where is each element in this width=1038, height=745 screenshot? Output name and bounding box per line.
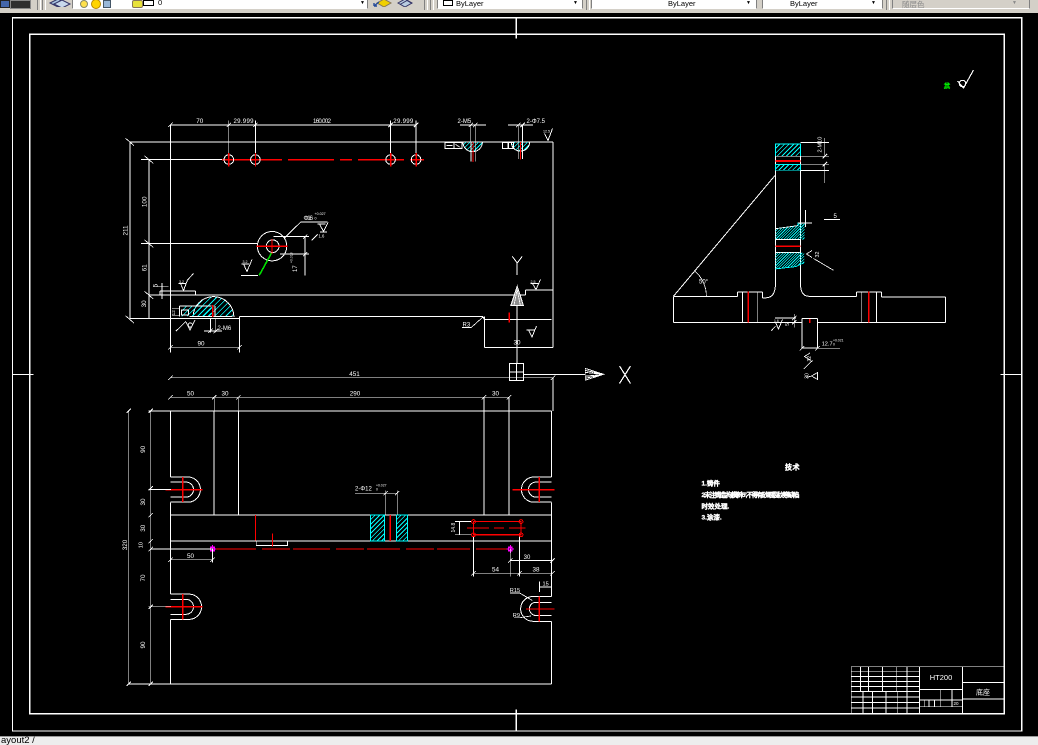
svg-text:29.999: 29.999 bbox=[234, 118, 255, 125]
svg-text:70: 70 bbox=[196, 118, 204, 125]
roughness mark right step bbox=[531, 280, 541, 290]
hole red cross ticks bbox=[229, 153, 416, 167]
svg-text:15: 15 bbox=[543, 581, 549, 587]
plot icon bbox=[132, 0, 143, 8]
svg-text:0: 0 bbox=[315, 216, 317, 220]
50deg angle arc bbox=[695, 271, 707, 296]
layer combobox bbox=[72, 0, 368, 9]
svg-text:其余: 其余 bbox=[944, 81, 951, 90]
phi16 hole inner circle bbox=[266, 240, 279, 253]
svg-text:320: 320 bbox=[122, 539, 129, 550]
hole row centerline red bbox=[149, 159, 222, 161]
svg-text:技术: 技术 bbox=[785, 463, 800, 472]
UCS Y label bbox=[512, 256, 522, 275]
svg-text:30: 30 bbox=[524, 555, 531, 561]
svg-text:HT200: HT200 bbox=[930, 673, 953, 682]
svg-text:12.5: 12.5 bbox=[543, 130, 550, 134]
frame centering tick right bbox=[1000, 373, 1021, 375]
bottom view outline bbox=[129, 411, 552, 684]
title block bbox=[851, 667, 1004, 714]
svg-text:R15: R15 bbox=[510, 588, 520, 594]
roughness mark below right step bbox=[527, 326, 537, 337]
pocket1 extension + text 2-M5 bbox=[460, 123, 486, 142]
svg-text:29.999: 29.999 bbox=[393, 118, 414, 125]
svg-text:17: 17 bbox=[293, 265, 299, 272]
base right bolt hole bbox=[862, 292, 877, 323]
svg-text:30: 30 bbox=[492, 391, 500, 398]
linetype combobox bbox=[591, 0, 757, 9]
svg-text:10: 10 bbox=[139, 542, 145, 548]
wall fillets bbox=[766, 285, 776, 298]
svg-text:290: 290 bbox=[350, 391, 361, 398]
surface callout 32 below key bbox=[804, 353, 813, 369]
451 dim bbox=[168, 376, 555, 411]
ext line to point bbox=[151, 548, 212, 550]
54 / 38 dims bbox=[471, 536, 554, 577]
base left bolt hole bbox=[743, 292, 758, 322]
roughness mark sheet top right of view bbox=[545, 129, 553, 141]
svg-text:50: 50 bbox=[187, 391, 195, 398]
svg-text:时效处理.: 时效处理. bbox=[702, 502, 730, 511]
svg-text:90: 90 bbox=[197, 340, 205, 347]
svg-text:3.2: 3.2 bbox=[179, 280, 184, 284]
50 dim below point bbox=[168, 549, 214, 562]
svg-text:32: 32 bbox=[815, 252, 821, 258]
svg-text:Φ16: Φ16 bbox=[304, 215, 314, 222]
svg-text:R9: R9 bbox=[513, 613, 520, 619]
svg-text:+0.018: +0.018 bbox=[290, 252, 294, 263]
R3 leader bbox=[462, 317, 483, 327]
application toolbar bbox=[0, 0, 1038, 14]
svg-text:30: 30 bbox=[221, 391, 229, 398]
svg-text:3.2: 3.2 bbox=[243, 260, 248, 264]
roughness check top right bbox=[958, 70, 974, 88]
base outline bbox=[673, 292, 945, 323]
middle red line bbox=[775, 245, 800, 247]
pocket2 datum boxes bbox=[503, 143, 514, 149]
svg-text:32: 32 bbox=[807, 356, 813, 362]
boss inner box + hatch bbox=[0, 0, 1, 1]
frame centering tick top bbox=[515, 18, 517, 39]
svg-text:100: 100 bbox=[142, 196, 149, 207]
svg-text:61: 61 bbox=[142, 264, 149, 272]
UCS vertical axis line bbox=[516, 305, 518, 363]
32 thread callout bbox=[807, 251, 834, 271]
svg-text:30: 30 bbox=[141, 300, 148, 308]
svg-text:2-M10: 2-M10 bbox=[818, 137, 824, 153]
key side dim 5 bbox=[775, 314, 796, 327]
UCS X label bbox=[620, 366, 631, 384]
key width dim 12.7 bbox=[800, 346, 840, 350]
2-M6 dim bbox=[204, 319, 222, 333]
phi16 label leader bbox=[284, 222, 327, 238]
layout tab bar bbox=[0, 736, 1038, 745]
red slot rectangle bbox=[474, 522, 522, 535]
svg-text:2-Φ7.5: 2-Φ7.5 bbox=[527, 119, 546, 125]
2-phi12 dim bbox=[355, 491, 400, 516]
green leader line bbox=[259, 253, 271, 275]
small tray below band bbox=[256, 541, 287, 545]
roughness triangle 1.6 bbox=[318, 223, 329, 232]
layer name 0 bbox=[158, 0, 162, 7]
svg-text:5: 5 bbox=[785, 323, 791, 326]
14.8 rotated dim bbox=[455, 522, 471, 535]
red dash-dot centerline bbox=[214, 548, 510, 550]
make layer icon bbox=[373, 0, 393, 7]
wall top hatch lower band bbox=[775, 164, 800, 170]
wall top red line bbox=[775, 160, 800, 162]
90 dim bottom of boss bbox=[168, 318, 242, 352]
slot bottom-left bbox=[170, 594, 201, 619]
layers stack icon bbox=[48, 0, 72, 7]
svg-text:2-M5: 2-M5 bbox=[458, 119, 472, 125]
svg-text:+0.027: +0.027 bbox=[315, 212, 326, 216]
svg-text:160.002: 160.002 bbox=[313, 118, 332, 125]
svg-text:1.6: 1.6 bbox=[774, 319, 779, 323]
UCS Y arrowhead bbox=[511, 286, 524, 305]
leader baseline + roughness at green end bbox=[241, 275, 258, 277]
svg-text:30: 30 bbox=[140, 524, 147, 532]
named view icon dark bbox=[10, 0, 31, 9]
red line in band left bbox=[254, 515, 256, 540]
front view 5-high pad bbox=[160, 291, 195, 295]
svg-text:12: 12 bbox=[171, 310, 176, 316]
svg-text:90: 90 bbox=[140, 445, 147, 453]
roughness circle-check below boss bbox=[176, 320, 195, 331]
svg-text:0: 0 bbox=[376, 488, 378, 492]
svg-text:50: 50 bbox=[187, 553, 195, 560]
front view left dimension line 100/61/5/30 bbox=[126, 138, 258, 323]
30 dim right bbox=[508, 549, 555, 577]
50/30/290/30 dim row bbox=[168, 395, 511, 411]
dim 5 at middle section bbox=[798, 210, 840, 227]
plotstyle combobox disabled bbox=[892, 0, 1030, 9]
UCS origin box bbox=[510, 364, 524, 381]
svg-text:2-M6: 2-M6 bbox=[218, 326, 232, 332]
left dim line of bottom view bbox=[149, 409, 172, 686]
svg-text:2-Φ12: 2-Φ12 bbox=[355, 487, 372, 493]
svg-text:90: 90 bbox=[140, 641, 147, 649]
svg-text:3.涂漆.: 3.涂漆. bbox=[702, 513, 722, 522]
slot bottom-right R15/R9 bbox=[521, 597, 552, 622]
center hatched hole 2-phi12 bbox=[371, 515, 385, 541]
frame centering tick bottom bbox=[515, 710, 517, 732]
slot top-right bbox=[521, 477, 551, 502]
hole circles bbox=[224, 155, 421, 165]
boss red centerline bbox=[212, 305, 214, 317]
lock icon bbox=[103, 0, 111, 8]
bulb icon bbox=[80, 0, 88, 8]
svg-text:54: 54 bbox=[492, 566, 500, 573]
wall top thread section hatch bbox=[775, 144, 800, 156]
2-M10 dim right of wall top bbox=[801, 138, 830, 183]
slot top-left bbox=[170, 477, 200, 502]
magenta point nodes bbox=[209, 545, 217, 553]
frame centering tick left bbox=[12, 373, 33, 375]
color combobox bbox=[437, 0, 583, 9]
top dimension line 70/29.999/160.002/29.999 bbox=[168, 121, 418, 353]
svg-text:1.6: 1.6 bbox=[319, 234, 325, 239]
15 dim near slot bbox=[540, 582, 552, 593]
phi16 hole outer circle bbox=[257, 232, 286, 261]
vertical dim 17 bbox=[274, 234, 310, 275]
svg-text:30: 30 bbox=[805, 373, 811, 379]
svg-text:0: 0 bbox=[833, 342, 835, 346]
R15 leader bbox=[510, 593, 532, 601]
svg-text:38: 38 bbox=[532, 566, 540, 573]
pocket1 datum boxes bbox=[445, 143, 462, 149]
320 overall dim line bbox=[127, 409, 131, 686]
sun icon bbox=[91, 0, 101, 9]
svg-text:70: 70 bbox=[140, 574, 147, 582]
svg-text:R3: R3 bbox=[463, 323, 471, 329]
phi16 red centerlines bbox=[257, 245, 288, 247]
svg-text:14.8: 14.8 bbox=[451, 523, 457, 533]
toolbar left partial icon bbox=[0, 0, 10, 8]
svg-text:451: 451 bbox=[349, 371, 360, 378]
roughness mark above pad bbox=[179, 274, 194, 291]
roughness left of key bbox=[771, 320, 782, 331]
svg-text:2.未注铸造, 拘模斜 5°, 不得有砂眼裂纹等缺陷: 2.未注铸造, 拘模斜 5°, 不得有砂眼裂纹等缺陷 bbox=[702, 490, 801, 499]
red mark on mid bottom edge bbox=[508, 313, 510, 323]
R9 leader bbox=[514, 616, 531, 618]
UCS X axis bbox=[524, 373, 586, 375]
lineweight combobox bbox=[762, 0, 883, 9]
svg-text:1.铸件: 1.铸件 bbox=[702, 479, 721, 488]
svg-text:20: 20 bbox=[954, 701, 960, 706]
color chip bbox=[143, 0, 154, 6]
bottom key bbox=[802, 319, 818, 349]
svg-text:12.7: 12.7 bbox=[822, 341, 833, 347]
svg-text:30: 30 bbox=[140, 498, 147, 506]
side view wall edges bbox=[775, 144, 800, 286]
gusset diagonal bbox=[673, 176, 775, 297]
UCS X arrowhead cone bbox=[585, 368, 603, 380]
svg-text:2.5: 2.5 bbox=[531, 280, 536, 284]
svg-text:211: 211 bbox=[123, 225, 130, 236]
front view outline bbox=[130, 142, 553, 348]
pocket2 extension + text bbox=[508, 123, 533, 142]
svg-text:50°: 50° bbox=[699, 280, 709, 286]
svg-text:底座: 底座 bbox=[976, 687, 990, 696]
layers icon 2 bbox=[397, 0, 413, 7]
surface callout 30 lower bbox=[806, 373, 818, 380]
